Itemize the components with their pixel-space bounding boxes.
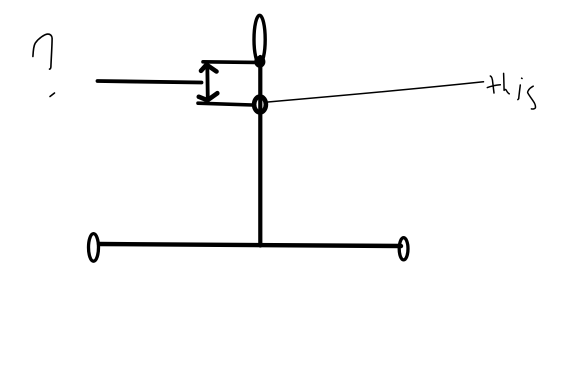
main vertical line (258, 57, 262, 246)
left end ellipse (89, 234, 99, 262)
text this: letter s (528, 86, 536, 109)
question mark dot (50, 93, 55, 97)
dimension arrow shaft (205, 65, 209, 101)
annotation line (268, 82, 484, 102)
bracket top line (203, 60, 260, 64)
top ellipse (254, 15, 265, 63)
right end ellipse (399, 238, 408, 260)
dimension arrow top head (201, 65, 217, 72)
question mark (33, 34, 52, 69)
text this: letter t (487, 76, 500, 93)
bracket bottom line (198, 103, 253, 105)
node circle (254, 97, 266, 113)
junction blob (254, 56, 265, 68)
text this: letter h (504, 73, 510, 93)
pointer line (98, 81, 202, 83)
text this: letter i (518, 78, 522, 99)
dimension arrow bottom head (199, 93, 218, 100)
bottom horizontal line (99, 244, 401, 246)
